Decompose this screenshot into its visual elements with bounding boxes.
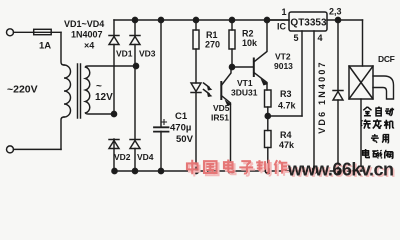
node top rail C1 bbox=[158, 17, 163, 22]
label VD1 bbox=[116, 49, 133, 59]
wire secondary top to bridge bbox=[86, 66, 137, 67]
wire bridge left column bbox=[113, 20, 115, 171]
diode VD2 bbox=[109, 140, 119, 149]
svg-text:VT2: VT2 bbox=[275, 52, 291, 62]
wire valve bottom lead bbox=[360, 99, 362, 171]
svg-text:QT3353: QT3353 bbox=[290, 18, 327, 29]
svg-text:9013: 9013 bbox=[274, 61, 293, 71]
label VD3 bbox=[139, 49, 156, 59]
svg-text:C1: C1 bbox=[175, 111, 188, 122]
svg-text:VD3: VD3 bbox=[139, 49, 156, 59]
wire R4 to bottom rail bbox=[267, 148, 269, 172]
label R2 10k bbox=[242, 29, 258, 49]
node bottom rail VT1 emitter bbox=[228, 168, 233, 173]
svg-text:R4: R4 bbox=[280, 130, 292, 140]
svg-text:VD6 1N4007: VD6 1N4007 bbox=[317, 60, 327, 134]
wire R2 to node A bbox=[231, 49, 233, 67]
label VT2 9013 bbox=[274, 52, 293, 72]
svg-text:~: ~ bbox=[96, 81, 102, 92]
svg-text:VD4: VD4 bbox=[137, 152, 154, 162]
node top rail VT2 collector bbox=[264, 17, 269, 22]
diode VD4 bbox=[130, 140, 140, 149]
wire bottom rail bbox=[114, 170, 362, 172]
label DCF bbox=[378, 54, 395, 64]
node secondary top junction bbox=[133, 63, 138, 68]
svg-text:470µ: 470µ bbox=[170, 123, 191, 134]
node bottom rail VD5 bbox=[193, 168, 198, 173]
wire node B to IC pin5 bbox=[268, 115, 302, 117]
diode VD1 bbox=[109, 36, 119, 45]
svg-text:R3: R3 bbox=[280, 89, 292, 99]
wire IC pin4 down bbox=[313, 31, 315, 171]
label pin 4 bbox=[318, 33, 323, 43]
svg-text:12V: 12V bbox=[95, 92, 113, 103]
svg-text:1A: 1A bbox=[39, 41, 51, 52]
wire R2 column top bbox=[231, 20, 233, 30]
svg-text:47k: 47k bbox=[279, 140, 295, 150]
node bottom rail VD2 bbox=[112, 168, 117, 173]
wire primary bottom lead bbox=[61, 117, 64, 149]
svg-text:50V: 50V bbox=[176, 134, 194, 145]
label VD2 bbox=[114, 152, 131, 162]
svg-text:IC: IC bbox=[277, 22, 287, 32]
wire primary top lead bbox=[61, 32, 64, 65]
node top rail R2 bbox=[229, 17, 234, 22]
watermark chinese characters bbox=[187, 159, 287, 174]
wire node A to VT2 base bbox=[232, 66, 254, 68]
node VD6 top bbox=[335, 17, 340, 22]
solenoid valve DCF bbox=[349, 66, 373, 99]
svg-text:270: 270 bbox=[205, 40, 220, 50]
svg-text:4: 4 bbox=[318, 33, 323, 43]
label solenoid chinese text line2 bbox=[361, 119, 394, 129]
node bottom rail IC pin4 bbox=[311, 168, 316, 173]
wire secondary bottom to bridge bbox=[86, 113, 115, 114]
label pin 5 bbox=[294, 33, 299, 43]
watermark shadow bbox=[189, 162, 289, 177]
transistor VT1 3DU31 phototransistor bbox=[220, 82, 222, 99]
wire IC pin1 bbox=[267, 19, 289, 21]
wire R3 to R4 bbox=[267, 107, 269, 131]
svg-text:VD1~VD4: VD1~VD4 bbox=[64, 19, 104, 29]
svg-text:IR51: IR51 bbox=[211, 113, 229, 123]
resistor R2 bbox=[229, 30, 235, 49]
label solenoid chinese text line3 bbox=[371, 134, 389, 143]
label VD6 1N4007 bbox=[317, 60, 327, 134]
diode VD6 bbox=[333, 91, 343, 101]
wire bridge right column bbox=[134, 20, 136, 171]
svg-text:R2: R2 bbox=[242, 29, 254, 39]
svg-text:2,3: 2,3 bbox=[329, 7, 342, 17]
transistor VT2 9013 bbox=[253, 59, 255, 77]
label VD5 IR51 bbox=[211, 103, 230, 123]
node bottom rail VD6 bbox=[335, 168, 340, 173]
capacitor C1 plus sign bbox=[162, 120, 167, 125]
node bottom rail VD4 bbox=[132, 168, 137, 173]
resistor R1 bbox=[193, 30, 199, 49]
node top rail R1 bbox=[193, 17, 198, 22]
label VD1~VD4 1N4007 x4 bbox=[64, 19, 104, 51]
arrow VT1 emitter bbox=[225, 100, 232, 107]
wire R1 to VD5 bbox=[195, 49, 197, 83]
terminal input top bbox=[7, 29, 14, 36]
svg-text:10k: 10k bbox=[242, 38, 258, 48]
label 1A bbox=[39, 41, 51, 52]
arrow VT2 emitter bbox=[261, 79, 269, 86]
svg-text:5: 5 bbox=[294, 33, 299, 43]
wire top rail bbox=[114, 19, 289, 21]
label ~220V bbox=[7, 84, 38, 96]
transformer core bbox=[78, 64, 81, 118]
label ~ 12V bbox=[95, 81, 113, 103]
label C1 470u 50V bbox=[170, 111, 194, 145]
node top rail VD3 bbox=[132, 17, 137, 22]
op-amp IC QT3353 bbox=[289, 12, 327, 31]
label R3 4.7k bbox=[278, 89, 297, 111]
node secondary bottom junction bbox=[111, 111, 116, 116]
wire valve top lead bbox=[362, 20, 364, 66]
svg-text:3DU31: 3DU31 bbox=[231, 88, 258, 98]
wire bottom input bbox=[14, 148, 62, 150]
resistor R3 bbox=[265, 90, 272, 107]
wire VD6 column bbox=[337, 20, 339, 171]
node bottom rail R4 bbox=[265, 168, 270, 173]
svg-text:R1: R1 bbox=[206, 30, 218, 40]
svg-text:VT1: VT1 bbox=[237, 78, 253, 88]
svg-text:1: 1 bbox=[282, 7, 287, 17]
svg-text:1N4007: 1N4007 bbox=[71, 30, 103, 40]
label R4 47k bbox=[279, 130, 295, 150]
svg-text:~220V: ~220V bbox=[7, 84, 38, 96]
wire IC pin5 down bbox=[301, 31, 303, 116]
svg-text:VD2: VD2 bbox=[114, 152, 131, 162]
wire R1 column top bbox=[195, 20, 197, 30]
label VT1 3DU31 bbox=[231, 78, 258, 98]
arrows VD5 light emission bbox=[204, 83, 210, 94]
svg-text:www.66kv.cn: www.66kv.cn bbox=[287, 160, 394, 180]
transformer secondary winding bbox=[86, 67, 90, 113]
terminal input bottom bbox=[7, 146, 14, 153]
label solenoid chinese text line1 bbox=[363, 107, 394, 116]
label VD4 bbox=[137, 152, 154, 162]
node B R3/R4/pin5 bbox=[265, 113, 270, 118]
node bottom rail C1 bbox=[158, 168, 163, 173]
wire IC pins 2,3 bbox=[327, 19, 363, 21]
label solenoid chinese text line4 bbox=[363, 149, 393, 158]
svg-text:4.7k: 4.7k bbox=[278, 101, 297, 111]
svg-text:DCF: DCF bbox=[378, 54, 395, 64]
watermark url text bbox=[287, 160, 394, 180]
pipe outlet bbox=[373, 76, 394, 99]
capacitor C1 bbox=[154, 127, 169, 131]
transformer T primary winding bbox=[64, 65, 71, 117]
wire C1 column bbox=[160, 20, 162, 171]
label R1 270 bbox=[205, 30, 220, 50]
resistor R4 bbox=[265, 131, 272, 148]
node A R2/VT1/VT2 bbox=[229, 64, 234, 69]
svg-text:VD1: VD1 bbox=[116, 49, 133, 59]
diode VD3 bbox=[130, 36, 140, 45]
label IC bbox=[277, 22, 287, 32]
wire VD5 to bottom rail bbox=[195, 93, 197, 172]
label pin 1 bbox=[282, 7, 287, 17]
diode VD5 LED IR51 bbox=[191, 83, 201, 93]
fuse FU 1A bbox=[34, 29, 52, 34]
label pins 2,3 bbox=[329, 7, 342, 17]
wire top input bbox=[14, 31, 62, 33]
svg-text:×4: ×4 bbox=[84, 41, 94, 51]
